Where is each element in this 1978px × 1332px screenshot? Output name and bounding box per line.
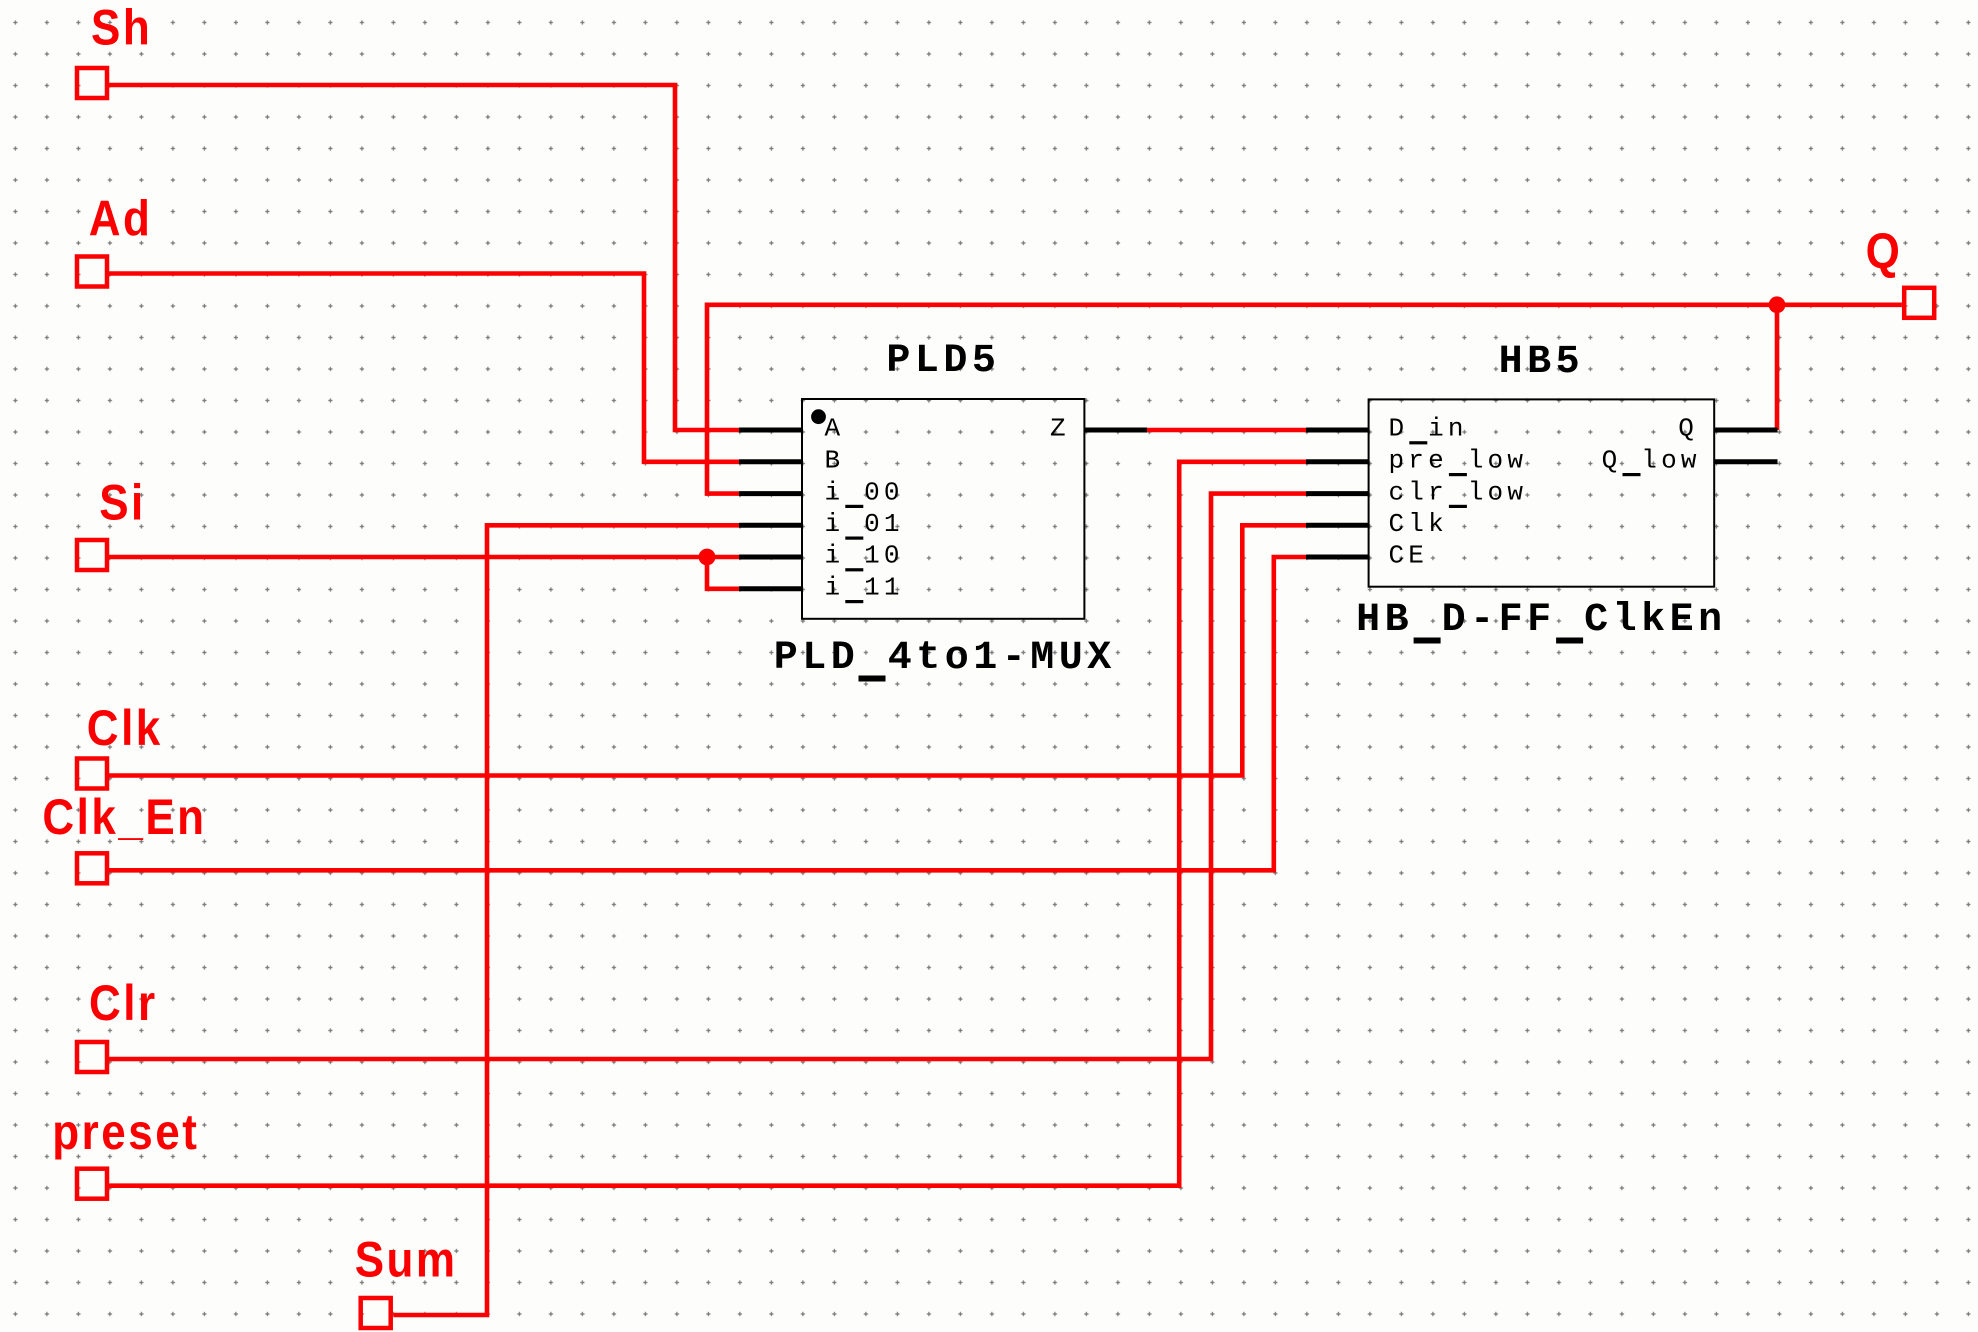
port Clk square — [77, 759, 107, 789]
svg-text:i 10: i 10 — [825, 541, 904, 571]
svg-text:Sh: Sh — [91, 0, 152, 55]
wire Clr net — [109, 494, 1306, 1059]
svg-text:Z: Z — [1050, 414, 1070, 444]
pin stub PLD5 i_11 — [739, 586, 802, 591]
svg-text:i 00: i 00 — [825, 477, 904, 507]
svg-text:B: B — [825, 446, 845, 476]
svg-text:Clk: Clk — [87, 700, 163, 755]
svg-text:preset: preset — [52, 1105, 199, 1160]
pin stub PLD5 Z — [1084, 428, 1147, 433]
svg-text:Q: Q — [1866, 223, 1903, 278]
wire Si branch to i_11 — [707, 557, 739, 589]
wire Sum net — [393, 525, 739, 1315]
junction node Q — [1769, 296, 1786, 313]
svg-text:HB D-FF ClkEn: HB D-FF ClkEn — [1356, 598, 1727, 643]
pin stub PLD5 A — [739, 428, 802, 433]
port Sh square — [77, 68, 107, 98]
svg-text:Sum: Sum — [355, 1232, 458, 1287]
port Clk_En square — [77, 853, 107, 883]
svg-text:PLD5: PLD5 — [886, 339, 1000, 384]
wire preset net — [109, 462, 1306, 1186]
pin stub HB5 D_in — [1306, 428, 1369, 433]
wire Q drop to HB5 Q pin — [1775, 305, 1780, 430]
pin stub HB5 Q_low — [1714, 459, 1777, 464]
component box HB5 — [1369, 399, 1715, 586]
wire Z to D_in — [1147, 428, 1306, 433]
svg-text:HB5: HB5 — [1499, 340, 1585, 385]
svg-text:clr low: clr low — [1389, 477, 1528, 507]
svg-text:Si: Si — [99, 475, 146, 530]
svg-text:PLD 4to1-MUX: PLD 4to1-MUX — [774, 636, 1116, 681]
port Ad square — [77, 257, 107, 287]
pin stub PLD5 i_10 — [739, 555, 802, 560]
wire Ad net — [109, 274, 739, 462]
svg-text:Clk_En: Clk_En — [42, 789, 206, 844]
port Clr square — [77, 1042, 107, 1072]
wire Si net — [109, 555, 739, 560]
svg-text:A: A — [825, 414, 845, 444]
port Q square — [1904, 288, 1934, 318]
wire Sh net — [109, 85, 739, 430]
pin stub HB5 clr_low — [1306, 491, 1369, 496]
svg-text:i 01: i 01 — [825, 509, 904, 539]
svg-text:i 11: i 11 — [825, 573, 904, 603]
pin stub HB5 Q — [1714, 428, 1777, 433]
pin stub PLD5 i_00 — [739, 491, 802, 496]
svg-text:Clr: Clr — [89, 976, 158, 1031]
svg-text:D in: D in — [1389, 414, 1468, 444]
svg-text:Ad: Ad — [89, 191, 153, 246]
svg-text:Q: Q — [1678, 414, 1698, 444]
component box PLD5 — [802, 399, 1084, 619]
pin stub HB5 pre_low — [1306, 459, 1369, 464]
port Si square — [77, 540, 107, 570]
pin-1 dot PLD5 — [811, 409, 826, 424]
svg-text:Clk: Clk — [1389, 509, 1448, 539]
svg-text:pre low: pre low — [1389, 446, 1528, 476]
port preset square — [77, 1169, 107, 1199]
port Sum square — [361, 1298, 391, 1328]
wire Q feedback net — [707, 305, 1902, 494]
wire Clk net — [109, 525, 1306, 775]
junction node Si/i_10/i_11 — [699, 549, 716, 566]
svg-text:Q low: Q low — [1602, 446, 1701, 476]
svg-text:CE: CE — [1389, 541, 1429, 571]
wire Clk_En net — [109, 557, 1306, 870]
pin stub PLD5 B — [739, 459, 802, 464]
pin stub HB5 Clk — [1306, 523, 1369, 528]
pin stub HB5 CE — [1306, 555, 1369, 560]
pin stub PLD5 i_01 — [739, 523, 802, 528]
